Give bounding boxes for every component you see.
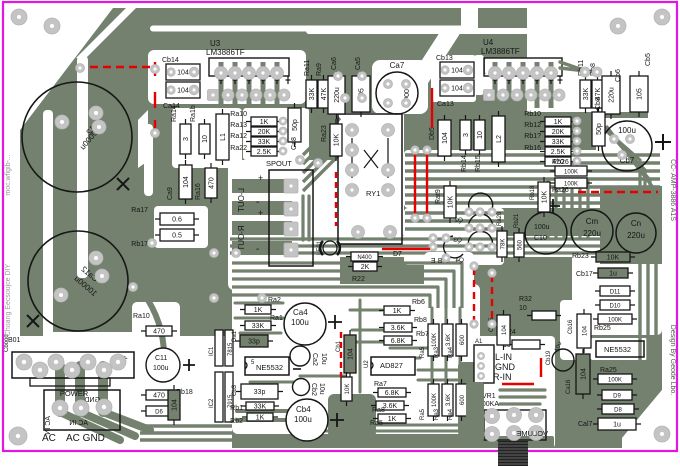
op-amp U2 AD827 <box>364 357 415 375</box>
resistor Rb15 (10) <box>474 115 485 155</box>
svg-text:100K: 100K <box>608 318 622 324</box>
svg-text:33p: 33p <box>248 339 260 346</box>
vertical bundle right-bottom <box>546 178 549 240</box>
svg-text:600: 600 <box>460 394 466 405</box>
resistor Rb22 (2.5K) <box>540 147 576 156</box>
red segment near pot <box>502 383 534 385</box>
svg-text:Rb14: Rb14 <box>461 155 468 172</box>
resistor Ra1 (33K) <box>240 321 276 330</box>
resistor Rb25 (100K) <box>593 314 637 324</box>
svg-text:D11: D11 <box>610 290 621 296</box>
diagonal traces NE of OUT block <box>303 118 340 155</box>
svg-text:Rb16: Rb16 <box>524 145 541 152</box>
svg-text:Cb2: Cb2 <box>310 383 317 396</box>
svg-text:100u: 100u <box>294 415 312 424</box>
svg-text:Ca16: Ca16 <box>566 379 572 394</box>
svg-text:10K: 10K <box>334 133 341 146</box>
svg-text:Ra14: Ra14 <box>171 105 178 122</box>
red jumpers left <box>154 62 156 76</box>
svg-text:3.6K: 3.6K <box>446 334 452 346</box>
resistor Ra3 (3.6K) <box>442 319 453 361</box>
svg-text:Cb6: Cb6 <box>615 69 622 82</box>
svg-text:R22: R22 <box>352 276 365 283</box>
svg-text:10: 10 <box>477 131 484 139</box>
svg-text:100K: 100K <box>432 393 438 407</box>
resistor Ra7 (6.8K) <box>373 388 411 397</box>
traces right of OUT rect <box>301 196 304 240</box>
svg-text:D7: D7 <box>393 251 402 258</box>
svg-text:Cb19: Cb19 <box>546 350 552 365</box>
svg-text:POWER: POWER <box>60 389 89 398</box>
svg-text:Rb10: Rb10 <box>524 111 541 118</box>
svg-text:104: 104 <box>451 68 463 75</box>
resistor Ra22 (2.5K) <box>246 147 282 156</box>
svg-text:Ra7: Ra7 <box>374 381 387 388</box>
red dash horizontal right <box>578 191 658 193</box>
svg-text:47K: 47K <box>321 87 328 100</box>
svg-text:3.6K: 3.6K <box>383 403 398 410</box>
svg-text:-: - <box>256 244 259 255</box>
svg-text:10: 10 <box>519 305 527 312</box>
resistor Rb1 (33K) <box>241 402 279 411</box>
svg-text:1K: 1K <box>260 119 269 126</box>
svg-text:33K: 33K <box>583 87 590 100</box>
red dash vertical bottom <box>340 332 342 377</box>
trace bundle: right edge vertical <box>638 200 641 388</box>
capacitor Ca5 (105) <box>352 71 370 117</box>
svg-text:Rb23: Rb23 <box>572 253 589 260</box>
svg-text:Cb4: Cb4 <box>296 405 311 414</box>
svg-text:220u: 220u <box>609 87 616 103</box>
svg-text:Ca7: Ca7 <box>390 61 405 70</box>
svg-text:220u: 220u <box>627 231 645 240</box>
resistor Ra14 (3) <box>180 119 191 159</box>
svg-text:LM3886TF: LM3886TF <box>206 48 245 57</box>
op-amp IC NE5532 (left) <box>245 357 289 375</box>
resistor Rb24 (10) <box>507 340 545 349</box>
svg-text:470: 470 <box>209 177 216 189</box>
capacitor Cb2 10u <box>293 379 326 396</box>
svg-text:C11: C11 <box>155 355 167 362</box>
svg-text:2K: 2K <box>361 264 370 271</box>
svg-text:Ra4: Ra4 <box>448 346 454 358</box>
capacitor Ca17 (1u) <box>593 418 641 430</box>
svg-text:100K: 100K <box>608 378 622 384</box>
svg-text:104: 104 <box>172 399 179 411</box>
capacitor Ca4 100u <box>284 303 342 345</box>
capacitor Ca16 (104) <box>576 349 590 399</box>
resistor Ra10 (470) <box>141 326 177 336</box>
svg-text:Ra26: Ra26 <box>552 187 569 194</box>
svg-text:Ra1: Ra1 <box>270 315 283 322</box>
svg-text:Rat9: Rat9 <box>435 189 442 204</box>
svg-text:Rb1?: Rb1? <box>524 133 541 140</box>
svg-text:1K: 1K <box>256 415 265 422</box>
capacitor C11 100u <box>146 348 195 382</box>
svg-text:D8: D8 <box>614 408 622 414</box>
svg-text:Ca5: Ca5 <box>355 57 362 70</box>
svg-text:100K: 100K <box>564 170 578 176</box>
svg-text:Cb3: Cb3 <box>232 384 238 396</box>
resistor Ra15 (10) <box>199 119 210 159</box>
svg-text:Cb5: Cb5 <box>645 53 652 66</box>
svg-text:104: 104 <box>177 88 189 95</box>
x mark near Ca12 <box>117 178 129 190</box>
svg-text:33K: 33K <box>258 139 271 146</box>
resistor Ra6 (100K) <box>428 319 439 361</box>
potentiometer VR1 <box>478 393 546 440</box>
svg-text:AC GND: AC GND <box>66 433 105 444</box>
local pour bottom-left traces <box>60 366 103 412</box>
svg-text:SPOUT: SPOUT <box>266 159 292 168</box>
potentiometer shaft <box>498 441 528 466</box>
power terminal POWER <box>44 389 120 435</box>
svg-text:moc.wfigib-...: moc.wfigib-... <box>5 154 12 195</box>
capacitor Ca6 (220u) <box>328 71 345 119</box>
svg-text:Ra20: Ra20 <box>497 211 503 226</box>
svg-text:Cb8: Cb8 <box>595 97 602 110</box>
svg-text:3: 3 <box>463 133 470 137</box>
white routing channels <box>150 26 478 32</box>
capacitor Cb16 (104) <box>577 309 591 353</box>
staircase traces to right edge <box>592 118 640 200</box>
svg-text:20K: 20K <box>258 129 271 136</box>
capacitor (104) <box>168 385 180 425</box>
svg-text:-: - <box>256 197 259 208</box>
capacitor Ca8 (50p) <box>288 103 301 147</box>
svg-text:Da1: Da1 <box>232 330 238 342</box>
relay RY1 <box>338 114 402 244</box>
svg-text:100K: 100K <box>432 333 438 347</box>
resistor Rb19 (10K) <box>538 177 550 217</box>
svg-text:0.5: 0.5 <box>172 233 182 240</box>
op-amp IC NE5532 (right) <box>596 341 644 357</box>
local pour: U3 pad traces <box>219 62 224 108</box>
resistor Rb21 (560) <box>514 228 524 262</box>
svg-text:105: 105 <box>637 88 644 100</box>
svg-text:2.5K: 2.5K <box>551 149 566 156</box>
svg-text:Ra23: Ra23 <box>321 125 328 142</box>
svg-text:3: 3 <box>183 137 190 141</box>
svg-text:78K: 78K <box>501 239 507 250</box>
svg-text:Rb25: Rb25 <box>594 325 611 332</box>
resistor Rb6 (1K) <box>379 306 415 315</box>
svg-text:NE5532: NE5532 <box>604 345 631 354</box>
resistor Ra6b (3.6K) <box>371 401 409 410</box>
svg-text:Ca4: Ca4 <box>293 308 308 317</box>
red jumpers mid verticals <box>473 268 475 320</box>
capacitor Ca14 (104) <box>166 82 200 98</box>
resistor Ra20 (78K) <box>497 226 507 262</box>
svg-text:104: 104 <box>183 176 190 188</box>
svg-text:Q2: Q2 <box>454 217 463 224</box>
svg-text:D6: D6 <box>155 410 163 416</box>
capacitor Cb4 100u <box>286 399 344 441</box>
resistor Rb23 (10K) <box>591 252 635 262</box>
svg-text:10: 10 <box>202 135 209 143</box>
resistor Rb8 (47K) <box>592 75 603 113</box>
transistor Q2 <box>454 214 493 230</box>
resistor Rb26 (100K) <box>550 166 592 176</box>
svg-text:Cb17: Cb17 <box>576 271 593 278</box>
svg-text:Ca13: Ca13 <box>437 101 454 108</box>
svg-text:Rb21: Rb21 <box>514 213 520 228</box>
capacitor Ca12 10000u (top-left big) <box>22 82 132 192</box>
svg-text:Ra3: Ra3 <box>434 346 440 358</box>
diode D7 (1N4001) <box>346 252 383 261</box>
resistor Rb13 (20K) <box>540 127 576 136</box>
svg-text:Ca9: Ca9 <box>167 187 174 200</box>
svg-text:1K: 1K <box>388 416 397 423</box>
resistor Rb11 (33K) <box>580 75 591 113</box>
svg-text:Ra2: Ra2 <box>268 297 281 304</box>
svg-text:Ca6: Ca6 <box>331 57 338 70</box>
svg-text:Ra25: Ra25 <box>600 367 617 374</box>
transistor Q1 <box>469 193 493 209</box>
svg-text:Cn: Cn <box>631 219 641 228</box>
resistor Ra2 (1K) <box>240 305 276 314</box>
svg-text:IC2: IC2 <box>209 398 215 408</box>
bottom band <box>232 436 554 448</box>
svg-text:L-OUT: L-OUT <box>237 188 246 212</box>
resistor Ra10 (1K) <box>246 117 282 126</box>
svg-text:50p: 50p <box>292 119 299 131</box>
svg-text:Ca8: Ca8 <box>291 137 298 150</box>
svg-text:Q4: Q4 <box>455 257 464 264</box>
svg-text:GND: GND <box>495 362 516 372</box>
capacitor Cb5 (105) <box>630 71 648 117</box>
resistor Rb2 (1K) <box>242 413 278 422</box>
svg-text:Cm: Cm <box>586 217 599 226</box>
svg-text:10K: 10K <box>542 190 549 203</box>
svg-text:D9: D9 <box>613 394 621 400</box>
svg-text:Ra10: Ra10 <box>133 313 150 320</box>
svg-text:U2: U2 <box>364 360 370 368</box>
resistor Ra8 (1K) <box>373 414 411 423</box>
resistor Ra11 (33K) <box>306 75 317 113</box>
resistor Rb8 (3.6K) <box>379 323 417 332</box>
resistor Rb4 (600) <box>456 379 467 421</box>
svg-text:+: + <box>258 173 263 183</box>
svg-text:33K: 33K <box>252 323 265 330</box>
svg-text:Ra11: Ra11 <box>304 60 311 76</box>
svg-text:AC IN: AC IN <box>45 416 52 435</box>
svg-text:Ra13: Ra13 <box>230 122 247 129</box>
svg-text:Ra5: Ra5 <box>420 408 426 420</box>
green wedge right of Cb4 <box>328 394 376 438</box>
pads transistor cluster <box>465 208 473 216</box>
svg-text:Ca2: Ca2 <box>311 353 318 366</box>
svg-text:VOLUME: VOLUME <box>516 429 548 438</box>
capacitor Ca13b 10000u (bottom-left big) <box>28 231 128 331</box>
svg-text:1u: 1u <box>609 271 617 278</box>
svg-text:10u: 10u <box>318 383 325 395</box>
bottom-left corner trio traces <box>148 300 164 364</box>
svg-text:LE01: LE01 <box>317 240 323 255</box>
power exit traces bottom-left <box>140 424 232 427</box>
svg-text:Rb17: Rb17 <box>131 241 148 248</box>
svg-text:470: 470 <box>153 329 165 336</box>
svg-text:10K: 10K <box>448 195 455 208</box>
svg-text:RY1: RY1 <box>366 189 380 198</box>
svg-text:Ra3: Ra3 <box>434 408 440 420</box>
regulator IC2 7915 <box>209 372 234 422</box>
capacitor Cb1 (104) <box>344 330 356 378</box>
svg-text:33K: 33K <box>254 404 267 411</box>
svg-text:Choang Eecsoujce DIY: Choang Eecsoujce DIY <box>5 263 12 336</box>
capacitor Cb13 (104) <box>440 62 474 78</box>
diode D10 <box>595 300 635 310</box>
svg-text:1K: 1K <box>254 307 263 314</box>
svg-text:Rb2: Rb2 <box>230 418 243 425</box>
capacitor Cb6 (220u) <box>602 71 620 119</box>
svg-text:104: 104 <box>442 132 449 144</box>
resistor Rb7 (6.8K) <box>379 336 417 345</box>
trace bundle: mid horizontal <box>405 153 660 156</box>
svg-text:Design By Geode Lbo.: Design By Geode Lbo. <box>669 325 676 395</box>
local pour: U4 pad traces <box>493 62 498 108</box>
svg-text:Rb7: Rb7 <box>416 331 429 338</box>
resistor Ra4 (600) <box>456 319 467 361</box>
svg-text:Ra10: Ra10 <box>230 111 247 118</box>
diode D9 <box>597 390 637 400</box>
resistor Rb5 (100K) <box>428 379 439 421</box>
svg-text:A1: A1 <box>475 339 483 345</box>
local pour: OUT block fingers <box>232 179 292 193</box>
svg-text:6.8K: 6.8K <box>391 338 406 345</box>
svg-text:100u: 100u <box>153 365 169 372</box>
svg-text:L-IN: L-IN <box>495 352 512 362</box>
capacitor Ca7 100u <box>376 61 418 114</box>
LED LE01 <box>317 240 340 255</box>
svg-text:104: 104 <box>177 70 189 77</box>
svg-text:Cb14: Cb14 <box>162 57 179 64</box>
diode D6 <box>141 406 177 416</box>
svg-text:Rb12: Rb12 <box>524 122 541 129</box>
pads in big caps <box>89 251 103 265</box>
capacitor Cb3 (33p) <box>236 384 283 399</box>
svg-text:Rb8: Rb8 <box>414 317 427 324</box>
svg-text:IC1: IC1 <box>209 346 215 356</box>
svg-text:50p: 50p <box>596 123 603 135</box>
svg-text:Cb16: Cb16 <box>568 319 574 334</box>
svg-text:Rb1: Rb1 <box>230 405 243 412</box>
resistor Rb10 (1K) <box>540 117 576 126</box>
resistor Ra9 (47K) <box>318 75 329 113</box>
svg-text:Ra16: Ra16 <box>195 183 202 200</box>
resistor Rb9 (10K) <box>444 181 456 223</box>
capacitor Ca6cap right of pot: Cb19 10u <box>546 341 574 371</box>
svg-text:1K: 1K <box>554 119 563 126</box>
svg-text:L2: L2 <box>496 135 503 143</box>
resistor R21 (10K) <box>341 372 352 406</box>
svg-text:Rb18: Rb18 <box>530 185 536 200</box>
resistor Ra23 (10K) <box>330 119 342 161</box>
svg-text:600: 600 <box>460 334 466 345</box>
capacitor Cb8 (50p) <box>592 107 605 151</box>
svg-text:104: 104 <box>502 324 508 335</box>
mesh traces bottom-center <box>235 302 283 305</box>
capacitor Db5 (104) <box>438 115 451 161</box>
resistor Ra25 (100K) <box>593 374 637 384</box>
svg-text:AC: AC <box>42 433 56 444</box>
svg-text:Rb6: Rb6 <box>412 299 425 306</box>
svg-text:VR1: VR1 <box>482 393 496 400</box>
svg-text:Cal7: Cal7 <box>578 421 593 428</box>
capacitor Cb15 (104) <box>497 310 510 350</box>
capacitor Ca2 10u <box>290 346 327 369</box>
connector A1 L-IN/GND/R-IN <box>474 339 494 383</box>
svg-text:220u: 220u <box>583 229 601 238</box>
capacitor Ca9 (104) <box>179 160 192 204</box>
red dashes near LE01 <box>335 172 337 226</box>
transistor Q4 <box>455 231 492 264</box>
svg-text:3.6K: 3.6K <box>391 325 406 332</box>
op-amp U4 LM3886TF <box>481 38 563 84</box>
svg-text:AC IN: AC IN <box>69 420 88 427</box>
capacitor Cb14 (104) <box>166 64 200 80</box>
svg-text:33K: 33K <box>309 87 316 100</box>
svg-text:N400: N400 <box>357 255 372 261</box>
svg-text:10K: 10K <box>607 255 620 262</box>
svg-text:470: 470 <box>153 393 165 400</box>
diode D11 <box>595 286 635 296</box>
svg-text:B01: B01 <box>8 337 21 344</box>
red jumper top mid <box>431 88 433 128</box>
svg-text:Rb15: Rb15 <box>475 155 482 172</box>
svg-text:10u: 10u <box>320 353 327 365</box>
resistor Rb10 (470) <box>141 390 177 400</box>
resistor R22 (2K) <box>348 262 382 271</box>
svg-text:R32: R32 <box>519 296 532 303</box>
svg-text:220u: 220u <box>334 87 341 103</box>
svg-text:Ra1b: Ra1b <box>190 105 197 122</box>
svg-text:Db5: Db5 <box>429 127 436 140</box>
svg-text:R-OUT: R-OUT <box>237 225 246 250</box>
svg-text:U3: U3 <box>210 39 221 48</box>
svg-text:10K: 10K <box>345 384 351 395</box>
svg-text:Ra17: Ra17 <box>131 207 148 214</box>
regulator IC1 7815 <box>209 330 234 366</box>
resistor Rb3 (3.6K) <box>442 379 453 421</box>
svg-text:Rb26: Rb26 <box>552 159 569 166</box>
green column left of pot <box>466 382 484 442</box>
resistor Rb12 (33K) <box>540 137 576 146</box>
svg-text:6.8K: 6.8K <box>385 390 400 397</box>
resistor Rb17 (0.5) <box>155 229 199 241</box>
speaker terminal L-OUT/R-OUT <box>237 170 313 266</box>
svg-text:560: 560 <box>518 239 524 250</box>
mounting pad bottom-left <box>9 427 27 445</box>
svg-text:0.6: 0.6 <box>172 217 182 224</box>
resistor Rb16 (470) <box>540 157 576 166</box>
svg-text:Ra9: Ra9 <box>316 63 323 76</box>
svg-text:3.6K: 3.6K <box>446 394 452 406</box>
svg-text:NE5532: NE5532 <box>256 363 283 372</box>
svg-text:Ra22: Ra22 <box>230 145 247 152</box>
x mark near Ca13b <box>27 315 39 327</box>
svg-text:100u: 100u <box>618 126 636 135</box>
op-amp U3 LM3886TF <box>206 39 291 84</box>
bundle under OUT block heading right-down with elbows <box>424 252 474 310</box>
scattered via pads <box>76 64 85 73</box>
svg-text:Ra12: Ra12 <box>230 133 247 140</box>
capacitor Cn 220u <box>616 213 656 253</box>
inductor L2 <box>492 111 505 167</box>
svg-text:LM3886TF: LM3886TF <box>481 47 520 56</box>
svg-text:D10: D10 <box>609 304 621 310</box>
bridge rectifier BD <box>4 334 134 386</box>
